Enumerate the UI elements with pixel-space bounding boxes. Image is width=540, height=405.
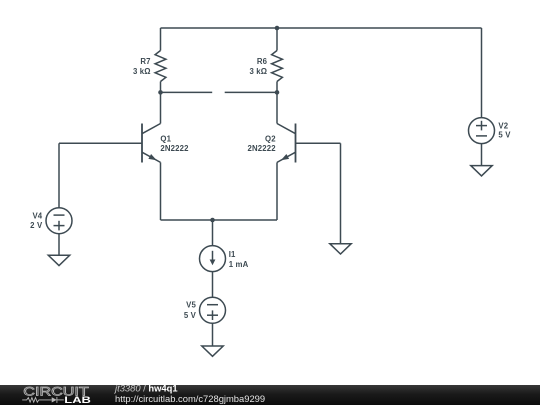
voltage source V5	[200, 297, 226, 323]
svg-text:3 kΩ: 3 kΩ	[249, 67, 267, 76]
wire V4 drop	[58, 143, 60, 207]
voltage source V4	[46, 208, 72, 234]
wire V5 to ground	[212, 323, 214, 346]
svg-text:http://circuitlab.com/c728gjmb: http://circuitlab.com/c728gjmba9299	[115, 393, 265, 404]
svg-text:V5: V5	[186, 301, 196, 310]
svg-text:V2: V2	[498, 122, 508, 131]
svg-text:R7: R7	[140, 57, 150, 66]
footer bar	[0, 383, 540, 405]
svg-text:5 V: 5 V	[184, 311, 197, 320]
wire V4 to ground	[58, 234, 60, 256]
wire V2 drop	[481, 28, 483, 118]
wire Q2 base drop	[340, 143, 342, 243]
svg-text:V4: V4	[32, 211, 42, 220]
wire stub left	[161, 91, 213, 93]
svg-text:LAB: LAB	[64, 395, 91, 405]
wire V2 to ground	[481, 144, 483, 166]
wire I1 to V5	[212, 272, 214, 298]
wire Q1 base	[59, 142, 142, 144]
voltage source V2	[469, 118, 495, 144]
current source I1	[200, 246, 226, 272]
node R6 bottom	[275, 90, 280, 95]
node R7 bottom	[158, 90, 163, 95]
ground (Q2 base)	[330, 244, 351, 254]
resistor R6	[272, 28, 283, 92]
node top rail R6	[275, 26, 280, 31]
svg-text:2N2222: 2N2222	[247, 144, 276, 153]
ground (V5)	[202, 346, 223, 356]
wire Q2 base	[296, 142, 341, 144]
svg-text:R6: R6	[257, 57, 268, 66]
svg-text:jt3380 / hw4q1: jt3380 / hw4q1	[113, 383, 178, 394]
logo squiggle	[22, 397, 64, 403]
svg-text:1 mA: 1 mA	[229, 260, 249, 269]
transistor Q1	[142, 92, 161, 220]
node emitter center	[210, 218, 215, 223]
svg-text:Q2: Q2	[265, 134, 276, 143]
ground (V2)	[471, 166, 492, 176]
svg-text:Q1: Q1	[160, 134, 171, 143]
wire top rail	[161, 27, 482, 29]
ground (V4)	[48, 255, 69, 265]
svg-text:5 V: 5 V	[498, 131, 511, 140]
wire stub right	[225, 91, 277, 93]
svg-text:2N2222: 2N2222	[160, 144, 189, 153]
resistor R7	[155, 28, 166, 92]
svg-text:I1: I1	[229, 250, 236, 259]
wire tail down	[212, 220, 214, 246]
svg-text:3 kΩ: 3 kΩ	[133, 67, 151, 76]
svg-text:2 V: 2 V	[30, 221, 43, 230]
transistor Q2	[277, 92, 296, 220]
logo diode	[52, 397, 57, 402]
wire emitter rail	[161, 219, 278, 221]
